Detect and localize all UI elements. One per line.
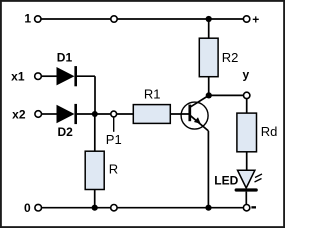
minus label bbox=[251, 206, 256, 208]
wire Rd top bbox=[246, 99, 248, 114]
resistor R bbox=[85, 151, 104, 189]
svg-text:R2: R2 bbox=[222, 50, 239, 65]
transistor Q1 bbox=[181, 102, 208, 131]
junction bottom R bbox=[92, 205, 98, 211]
wire x2 to D2 bbox=[42, 113, 58, 115]
junction node P1 bbox=[92, 111, 98, 117]
LED rays bbox=[255, 174, 263, 182]
terminal y bbox=[244, 92, 250, 98]
wire R2 bottom bbox=[208, 77, 210, 96]
resistor R1 bbox=[133, 105, 170, 124]
wire collector diagonal bbox=[190, 95, 209, 107]
wire P1 to R1 bbox=[117, 113, 134, 115]
terminal 1 bbox=[35, 16, 41, 22]
resistor R2 bbox=[199, 38, 218, 76]
diode D1 bbox=[57, 66, 76, 86]
svg-text:y: y bbox=[243, 68, 250, 82]
junction collector bbox=[206, 92, 212, 98]
svg-text:+: + bbox=[252, 13, 259, 27]
wire R1 to base bbox=[170, 113, 189, 115]
svg-text:D2: D2 bbox=[58, 125, 74, 139]
resistor Rd bbox=[237, 113, 257, 152]
svg-text:D1: D1 bbox=[57, 50, 73, 64]
svg-text:R: R bbox=[109, 162, 118, 177]
wire top rail left bbox=[41, 18, 110, 20]
LED D3 bbox=[238, 170, 255, 188]
svg-text:LED: LED bbox=[214, 173, 238, 187]
LED cathode bar bbox=[236, 188, 256, 191]
wire R top bbox=[94, 114, 96, 151]
terminal 0 bbox=[35, 204, 42, 211]
terminal minus bbox=[243, 205, 249, 211]
junction top rail bbox=[206, 16, 212, 22]
wire junction to P1 bbox=[95, 113, 111, 115]
wire Rd to LED bbox=[246, 152, 248, 170]
svg-text:x1: x1 bbox=[11, 69, 25, 83]
wire x1 to D1 bbox=[42, 75, 58, 77]
wire to y terminal bbox=[209, 94, 244, 96]
connector top rail bbox=[111, 16, 117, 22]
svg-text:x2: x2 bbox=[12, 107, 26, 121]
junction bottom emitter bbox=[205, 205, 211, 211]
wire D2 out bbox=[76, 113, 95, 115]
wire top rail right bbox=[118, 18, 244, 20]
terminal plus bbox=[243, 16, 249, 22]
wire bottom rail left bbox=[42, 207, 111, 209]
wire D1 down bbox=[94, 76, 96, 114]
svg-text:0: 0 bbox=[24, 201, 31, 215]
terminal x1 bbox=[35, 73, 42, 80]
svg-text:R1: R1 bbox=[144, 87, 161, 102]
wire LED to minus bbox=[245, 192, 247, 205]
connector bottom rail bbox=[111, 205, 117, 211]
diode D2 bbox=[57, 104, 76, 124]
wire D1 out bbox=[76, 75, 95, 77]
svg-text:P1: P1 bbox=[106, 132, 122, 147]
P1 tick bbox=[113, 117, 115, 132]
wire R2 top bbox=[208, 19, 210, 38]
terminal x2 bbox=[35, 111, 42, 118]
wire bottom rail right bbox=[117, 207, 243, 209]
svg-text:1: 1 bbox=[24, 12, 31, 26]
wire emitter down bbox=[207, 131, 209, 208]
wire R bottom bbox=[94, 190, 96, 208]
probe P1 bbox=[111, 111, 117, 117]
svg-text:Rd: Rd bbox=[261, 124, 278, 139]
